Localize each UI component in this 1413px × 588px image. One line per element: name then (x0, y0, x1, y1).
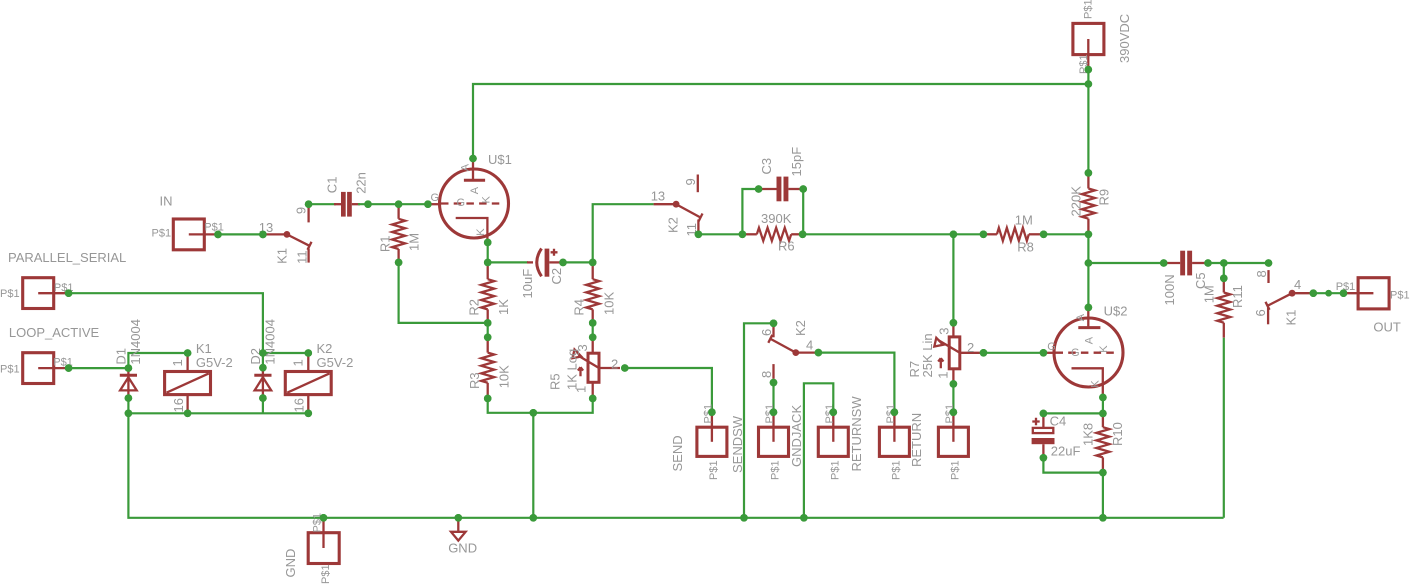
node U$2 grid pin (1040, 349, 1048, 357)
svg-text:10uF: 10uF (520, 269, 535, 299)
wire R3 bottom row to R5 pin1 (488, 398, 593, 412)
node R7 pin 3 (950, 319, 958, 327)
pad RETURN (P$1) (909, 404, 968, 480)
resistor R1 1M (377, 204, 421, 262)
wire K2 pin4 to RETURNSW jack (818, 353, 894, 413)
node ground rail at x533 (530, 514, 538, 522)
diode D1 1N4004 (114, 319, 144, 398)
wire C5 to K1 pin 8 (1208, 262, 1269, 264)
svg-text:1M: 1M (407, 233, 422, 251)
svg-text:15pF: 15pF (789, 147, 804, 177)
node R8 right pin (1040, 231, 1048, 239)
svg-text:6: 6 (759, 329, 774, 336)
svg-text:P$1: P$1 (0, 364, 20, 376)
svg-text:P$1: P$1 (829, 460, 841, 480)
svg-text:K1: K1 (196, 341, 212, 356)
resistor R6 390K (742, 211, 802, 254)
wire C3 right branch (802, 189, 804, 234)
svg-text:1: 1 (936, 372, 951, 379)
svg-text:1: 1 (574, 386, 589, 393)
node C4 bottom pin (1040, 454, 1048, 462)
svg-text:1M: 1M (1201, 285, 1216, 303)
ground symbol GND (448, 518, 477, 556)
switch K2 (pins 6/4/8) (759, 320, 816, 379)
node R2 bottom junction (484, 319, 492, 327)
wire R1 bottom to R2 bottom (399, 262, 488, 323)
svg-text:1K Log: 1K Log (564, 349, 579, 390)
wire C2 to R4 top (563, 261, 593, 263)
svg-text:PARALLEL_SERIAL: PARALLEL_SERIAL (8, 250, 126, 265)
wire relay ground rail (128, 412, 308, 414)
svg-text:10K: 10K (602, 292, 617, 315)
svg-text:G: G (431, 192, 440, 204)
svg-text:10K: 10K (497, 365, 512, 388)
wire junction down to ground rail (532, 413, 534, 518)
svg-text:6: 6 (1253, 309, 1268, 316)
node K1 coil pin 1 (184, 349, 192, 357)
svg-text:R4: R4 (572, 299, 587, 316)
node K2 coil pin 16 (305, 410, 313, 418)
svg-text:A: A (1075, 313, 1087, 321)
capacitor C5 100N (1162, 251, 1208, 306)
wire cathode to C2 row (487, 242, 489, 262)
svg-text:SENDSW: SENDSW (730, 415, 745, 473)
pad SENDSW (P$1) (730, 404, 789, 480)
node K1 pin 4 (1310, 289, 1318, 297)
svg-text:13: 13 (651, 189, 665, 204)
node cathode/C4/R10 junction (1099, 410, 1107, 418)
svg-text:OUT: OUT (1373, 319, 1401, 334)
node C5 right pin (1204, 259, 1212, 267)
wire relay rail down to ground rail (128, 413, 1223, 518)
node ground rail at x744 (740, 514, 748, 522)
node K2 pin 8 (770, 379, 778, 387)
svg-text:25K Lin: 25K Lin (920, 333, 935, 377)
pad OUT (P$1) (1336, 278, 1410, 335)
svg-text:9: 9 (683, 178, 698, 185)
node top rail junction (1085, 80, 1093, 88)
node LOOP_ACTIVE pin (65, 364, 73, 372)
node ground rail at x804 (800, 514, 808, 522)
svg-text:R1: R1 (377, 235, 392, 252)
wire R10 junction to ground rail (1102, 473, 1104, 518)
node R1 top (395, 200, 403, 208)
wire C5 row (1088, 262, 1163, 264)
wire PARALLEL_SERIAL to D2/K2 coil (69, 293, 263, 353)
svg-text:C3: C3 (759, 158, 774, 175)
node R3 top pin (484, 334, 492, 342)
wire R5 wiper to SEND jack (625, 368, 712, 412)
svg-text:P$1: P$1 (0, 288, 20, 300)
node K1 pin 13 (259, 231, 267, 239)
svg-text:R6: R6 (778, 239, 795, 254)
junction dots overlay (65, 66, 1347, 522)
svg-text:A: A (469, 186, 481, 194)
wire D2 anode to relay rail (262, 398, 264, 413)
node ground rail at GND pad (320, 514, 328, 522)
wire R2 bottom to R3 top (487, 323, 489, 337)
resistor R9 220K (1069, 173, 1112, 234)
node R5 pin 1 (589, 395, 597, 403)
svg-text:3: 3 (575, 344, 590, 351)
wire C3 left branch (742, 189, 758, 234)
node RETURNSW jack pin (891, 408, 899, 416)
resistor R2 1K (467, 262, 512, 323)
node PARALLEL_SERIAL pin (65, 289, 73, 297)
node R7 branch junction (950, 231, 958, 239)
svg-text:4: 4 (806, 338, 813, 353)
capacitor C2 10uF polarized (520, 249, 564, 299)
node C3 left pin (755, 185, 763, 193)
wire K2 coil pin1 row (263, 352, 308, 354)
svg-text:GNDJACK: GNDJACK (789, 405, 804, 467)
svg-text:R2: R2 (467, 299, 482, 316)
wire C4 row (1043, 412, 1103, 414)
switch K2 (pins 13/9/11) (651, 175, 703, 237)
node SEND jack pin (708, 408, 716, 416)
svg-text:G5V-2: G5V-2 (196, 355, 233, 370)
node R4 bottom junction (589, 319, 597, 327)
svg-text:P$1: P$1 (890, 460, 902, 480)
wire cathode junction to C2 (488, 261, 528, 263)
node D2 junction top (259, 349, 267, 357)
wire R4 bottom to R5 pin3 (592, 323, 594, 337)
node R3 bottom pin (484, 395, 492, 403)
svg-text:9: 9 (293, 207, 308, 214)
svg-text:390VDC: 390VDC (1117, 14, 1132, 63)
node C3 right pin (799, 185, 807, 193)
svg-text:100N: 100N (1162, 274, 1177, 305)
svg-text:1K: 1K (496, 299, 511, 315)
node U$2 anode pin (1085, 304, 1093, 312)
svg-text:GND: GND (283, 549, 298, 578)
node K1 coil pin 16 (184, 410, 192, 418)
node cathode/C2/R2 junction (484, 259, 492, 267)
node R8/R9 junction (1085, 231, 1093, 239)
node OUT pad pin (1340, 289, 1348, 297)
node K2 coil pin 1 (305, 349, 313, 357)
svg-text:390K: 390K (761, 211, 792, 226)
wire C1 to U$1 grid (358, 203, 428, 205)
node U$1 grid pin (424, 200, 432, 208)
relay K2 G5V-2 coil (285, 341, 353, 413)
potentiometer R5 1K Log (548, 337, 621, 398)
svg-text:K2: K2 (666, 217, 681, 233)
wire K2 pin11 to R6 (698, 233, 742, 235)
svg-text:11: 11 (295, 250, 310, 264)
capacitor C1 22n (325, 172, 369, 217)
potentiometer R7 25K Lin (907, 323, 980, 384)
wire K1 pin9 to C1 (309, 203, 336, 205)
triode U$1 (428, 152, 512, 243)
node C5 left pin (1160, 259, 1168, 267)
svg-text:R8: R8 (1017, 239, 1034, 254)
svg-text:K1: K1 (1284, 310, 1299, 326)
svg-text:R10: R10 (1110, 422, 1125, 446)
svg-text:U$2: U$2 (1104, 303, 1128, 318)
svg-text:22n: 22n (354, 172, 369, 194)
resistor R3 10K (467, 337, 512, 398)
node D1 anode pin (125, 394, 133, 402)
svg-text:A: A (1084, 336, 1096, 344)
node SENDSW jack pin (770, 408, 778, 416)
node ground rail at x1103 (1099, 514, 1107, 522)
wire R11 down to ground rail (1223, 338, 1225, 518)
wire K2 pin8 to SENDSW jack (772, 383, 774, 413)
svg-text:3: 3 (936, 328, 951, 335)
node R6 right pin (799, 231, 807, 239)
svg-text:R5: R5 (548, 373, 563, 390)
node K2 pin 11 (695, 231, 703, 239)
node D2 cathode (259, 364, 267, 372)
svg-text:220K: 220K (1069, 186, 1084, 217)
node K2 pin 4 (815, 349, 823, 357)
wire junction down to R7 pin 3 (952, 234, 954, 322)
svg-text:K2: K2 (317, 341, 333, 356)
node R3 row junction to ground (530, 409, 538, 417)
node K1 pin 8 (1265, 259, 1273, 267)
resistor R11 1M (1201, 278, 1245, 337)
svg-text:P$1: P$1 (204, 222, 224, 234)
node C4 top pin (1040, 410, 1048, 418)
node R7 pin 2 wiper (980, 349, 988, 357)
svg-text:1K8: 1K8 (1081, 423, 1096, 446)
node D2 anode pin (259, 394, 267, 402)
wire D2 branch down (262, 353, 264, 368)
svg-text:C2: C2 (549, 268, 564, 285)
relay K1 G5V-2 coil (165, 341, 233, 413)
pad GNDJACK (P$1) (789, 404, 848, 480)
capacitor C4 22uF polarized (1032, 413, 1081, 458)
svg-text:16: 16 (171, 398, 186, 412)
pad LOOP_ACTIVE (P$1) (0, 325, 100, 384)
node R5 pin 3 (589, 334, 597, 342)
wire D1 anode to relay rail (127, 398, 129, 413)
pad IN (P$1) (152, 193, 224, 250)
svg-text:1N4004: 1N4004 (128, 319, 143, 365)
node C1 right pin (364, 200, 372, 208)
svg-text:P$1: P$1 (1082, 0, 1094, 19)
switch K1 (pins 8/4/6) (1253, 270, 1313, 325)
wire 390VDC down to R9 (1087, 70, 1089, 173)
wire U$1 anode to top rail (473, 84, 1088, 159)
node wire joint (1325, 290, 1332, 297)
svg-text:G: G (1071, 347, 1080, 359)
node R1 bottom (395, 259, 403, 267)
svg-text:1N4004: 1N4004 (263, 319, 278, 365)
svg-text:P$1: P$1 (320, 564, 332, 584)
node R8 left pin (980, 231, 988, 239)
svg-text:LOOP_ACTIVE: LOOP_ACTIVE (9, 325, 100, 340)
svg-text:G: G (457, 197, 466, 209)
wire U$2 cathode down (1102, 397, 1104, 413)
resistor R4 10K (572, 262, 617, 323)
node U$2 cathode pin (1099, 394, 1107, 402)
svg-text:R11: R11 (1230, 285, 1245, 308)
node GNDJACK jack pin (830, 408, 838, 416)
svg-text:P$1: P$1 (1390, 290, 1410, 302)
node R4 top junction (589, 259, 597, 267)
svg-text:4: 4 (1294, 277, 1301, 292)
pad SEND (P$1) (670, 404, 727, 480)
wire D1 to K1 coil pin 1 (128, 353, 187, 368)
node R10 bottom junction (1099, 469, 1107, 477)
svg-text:P$1: P$1 (708, 460, 720, 480)
svg-text:P$1: P$1 (949, 460, 961, 480)
node relay rail left junction (125, 410, 133, 418)
svg-text:22uF: 22uF (1051, 444, 1081, 459)
svg-text:8: 8 (1254, 270, 1269, 277)
wire LOOP_ACTIVE to D1 (69, 367, 129, 369)
node U$1 anode pin (469, 155, 477, 163)
node 390VDC pin (1085, 66, 1093, 74)
wire R9 junction down to U$2 anode (1087, 234, 1089, 307)
svg-text:IN: IN (160, 193, 173, 208)
svg-text:1: 1 (291, 359, 306, 366)
node RETURN jack pin (950, 408, 958, 416)
wire R8 to R9 junction (1044, 233, 1089, 235)
node R5 pin 2 wiper (621, 364, 629, 372)
svg-text:8: 8 (759, 371, 774, 378)
node K1 pin 9 (305, 200, 313, 208)
svg-text:16: 16 (292, 398, 307, 412)
node K2 pin 6 (770, 320, 778, 328)
wire R11 branch down (1223, 263, 1225, 278)
svg-text:SEND: SEND (670, 435, 685, 471)
pad 390VDC (P$1) (1073, 0, 1132, 74)
svg-text:G: G (1047, 341, 1056, 353)
wire R7 wiper to U$2 grid (984, 352, 1044, 354)
switch K1 (input, pins 13/9/11) (259, 207, 312, 264)
svg-text:K: K (475, 228, 487, 236)
svg-text:C1: C1 (325, 177, 340, 194)
node IN pad pin (214, 231, 222, 239)
svg-text:R9: R9 (1097, 189, 1112, 206)
resistor R10 1K8 (1081, 413, 1126, 472)
svg-text:K: K (481, 196, 493, 204)
svg-text:A: A (459, 163, 471, 171)
svg-text:K: K (1098, 345, 1110, 353)
svg-text:C4: C4 (1050, 414, 1067, 429)
svg-text:RETURN: RETURN (909, 413, 924, 467)
wire K1 pin4 to OUT pad (1313, 292, 1343, 294)
wire R4 top to K2 pin 13 (593, 204, 654, 262)
node U$1 cathode pin (484, 239, 492, 247)
svg-text:D1: D1 (114, 348, 129, 365)
wire K2 pin6 to ground rail (744, 323, 774, 518)
node R7 pin 1 (950, 380, 958, 388)
svg-text:RETURNSW: RETURNSW (849, 396, 864, 472)
svg-text:2: 2 (967, 340, 974, 355)
wire GNDJACK to ground rail (804, 383, 833, 518)
wire IN pad to K1 pin 13 (218, 233, 263, 235)
node R11 branch junction (1220, 259, 1228, 267)
node R9 top pin (1085, 169, 1093, 177)
svg-text:R3: R3 (467, 372, 482, 389)
svg-text:P$1: P$1 (770, 460, 782, 480)
svg-text:1M: 1M (1015, 213, 1033, 228)
svg-text:GND: GND (448, 541, 477, 556)
capacitor C3 15pF (759, 147, 804, 201)
svg-text:1: 1 (170, 359, 185, 366)
node R11 top pin (1220, 275, 1228, 283)
wire R7 pin1 to RETURN jack (952, 384, 954, 412)
svg-text:K2: K2 (793, 320, 808, 336)
wire C4 bottom to R10 bottom (1043, 458, 1103, 473)
wire R6 to R8 row (803, 233, 984, 235)
pad GND (P$1) (283, 513, 339, 584)
svg-text:K: K (1090, 380, 1102, 388)
svg-text:G5V-2: G5V-2 (317, 355, 354, 370)
node ground rail at GND symbol (455, 514, 463, 522)
node C5 branch junction (1085, 259, 1093, 267)
node C2 right pin (559, 259, 567, 267)
resistor R8 1M (983, 213, 1043, 255)
svg-text:P$1: P$1 (152, 228, 172, 240)
diode D2 1N4004 (248, 319, 278, 398)
node R6/C3 left junction (739, 231, 747, 239)
svg-text:U$1: U$1 (488, 152, 512, 167)
pad RETURNSW (P$1) (849, 396, 909, 480)
svg-text:K1: K1 (275, 248, 290, 264)
node D1 cathode junction (125, 364, 133, 372)
triode U$2 (1043, 303, 1127, 397)
pad PARALLEL_SERIAL (P$1) (0, 250, 126, 309)
svg-text:2: 2 (611, 357, 618, 372)
